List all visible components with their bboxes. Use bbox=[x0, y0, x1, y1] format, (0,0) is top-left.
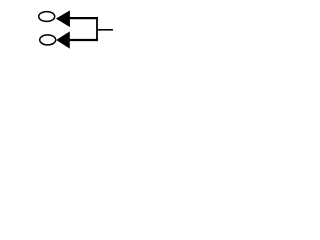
top wire bbox=[70, 17, 98, 19]
vertical bus wire bbox=[96, 17, 98, 41]
top triangle bbox=[56, 10, 70, 27]
top ellipse bbox=[39, 12, 55, 22]
bottom wire bbox=[69, 39, 98, 41]
bottom ellipse bbox=[40, 35, 56, 45]
bottom triangle bbox=[56, 31, 70, 48]
output wire bbox=[97, 29, 113, 31]
